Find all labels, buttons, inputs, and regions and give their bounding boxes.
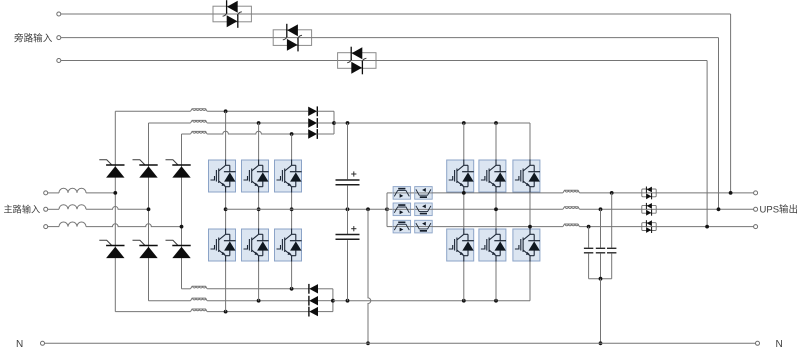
svg-text:N: N <box>776 339 783 350</box>
wire output phase B to terminal <box>656 208 753 210</box>
bidirectional switch module SB1a <box>393 187 411 200</box>
thyristor Q6 (leg3 bottom) <box>166 240 191 258</box>
wire PFC column 2 upper <box>258 123 260 160</box>
inductor Lb4 <box>191 286 208 289</box>
capacitor C4 (filter phase B) <box>596 248 605 253</box>
wire balancer row 2 stub <box>387 208 393 210</box>
wire balancer input bus vertical <box>386 193 388 227</box>
wire inverter column 3 lower <box>529 262 531 301</box>
node +bus inverter col2 junction <box>494 121 498 125</box>
wire boost top 2 diode to bus <box>318 122 334 124</box>
diode D3 (boost top 3) <box>308 129 317 139</box>
wire boost top line 3 continue <box>207 131 308 134</box>
wire output phase A to switch <box>580 192 642 194</box>
node midpoint-balancer junction <box>385 207 389 211</box>
node -bus cap junction <box>346 299 350 303</box>
node output phase B terminal <box>754 207 758 211</box>
IGBT module U2 (PFC top row) <box>242 160 269 193</box>
node bottom3-PFC col1 junction <box>224 310 228 314</box>
IGBT module U9 (inverter top row) <box>513 160 540 193</box>
svg-text:旁路输入: 旁路输入 <box>14 33 53 45</box>
wire PFC column 3 lower <box>291 262 293 289</box>
wire output phase C to switch <box>580 226 642 228</box>
node output phase A terminal <box>754 191 758 195</box>
wire bypass B right <box>312 37 719 39</box>
wire DC midpoint bus <box>226 208 387 210</box>
wire bypass A left <box>61 13 213 15</box>
wire mains C lead <box>48 226 59 228</box>
node -bus inverter col1 junction <box>462 299 466 303</box>
wire neutral drop (midpoint to N, hop over -bus) <box>368 209 371 343</box>
wire PFC column 2 lower <box>258 262 260 301</box>
wire boost top line 1 to diode <box>207 110 308 112</box>
wire boost top line 3 (hops over PFC cols 1,2) <box>182 133 191 135</box>
node midpoint-cap junction <box>346 207 350 211</box>
wire filter cap B lower <box>600 253 602 279</box>
inductor Lo1 <box>563 190 580 193</box>
node phase B filter tap <box>599 207 603 211</box>
bidirectional switch module SB3a <box>393 220 411 233</box>
node bottom1-PFC col3 junction <box>290 287 294 291</box>
wire PFC column 3 middle <box>291 193 293 229</box>
wire boost bottom line 1 (from leg3) <box>182 288 191 290</box>
wire rectifier leg 2 vertical <box>148 123 150 301</box>
IGBT module U5 (PFC bottom row) <box>242 229 269 262</box>
IGBT module U1 (PFC top row) <box>209 160 236 193</box>
inductor Lo3 <box>563 224 580 227</box>
node PFC column 2 midpoint <box>257 207 261 211</box>
wire mains A lead <box>48 192 59 194</box>
wire bottom diode merge bus vertical <box>332 289 334 312</box>
wire inverter column 2 middle <box>495 193 497 229</box>
wire inverter column 1 upper <box>463 123 465 160</box>
capacitor C3 (filter phase A) <box>607 248 616 253</box>
wire mains B lead <box>48 208 59 210</box>
wire output phase A <box>432 192 563 194</box>
wire boost top line 2 <box>149 122 191 124</box>
wire balancer row 2 mid link <box>411 208 415 210</box>
wire inverter column 2 upper <box>495 123 497 160</box>
wire bypass B left <box>61 37 273 39</box>
wire balancer row 1 mid link <box>411 192 415 194</box>
node merge-bus positive junction <box>332 121 336 125</box>
wire boost bottom 2 diode to bus <box>318 300 333 302</box>
node mains phase B terminal <box>44 207 48 211</box>
thyristor pair SSW1 (static bypass phase A) <box>213 0 251 28</box>
IGBT module U6 (PFC bottom row) <box>275 229 302 262</box>
node bypass phase C terminal <box>57 59 61 63</box>
wire bypass A drop to output <box>730 14 732 193</box>
node bypass B output junction <box>717 207 721 211</box>
wire filter cap B drop <box>600 209 602 247</box>
node bypass phase B terminal <box>57 36 61 40</box>
node N left terminal <box>41 341 45 345</box>
wire boost bottom line 2 to diode <box>207 300 309 302</box>
thyristor pair SSW3 (static bypass phase C) <box>338 47 376 75</box>
wire boost top line 1 <box>115 110 190 112</box>
inductor Lin1 <box>59 188 86 193</box>
inductor Lb2 <box>191 120 208 123</box>
wire boost bottom line 3 (from leg1) <box>115 311 190 313</box>
node leg3-phaseC junction <box>180 225 184 229</box>
inductor Lb3 <box>191 131 208 134</box>
bidirectional switch module SB2b <box>415 203 433 216</box>
wire boost bottom line 1 to diode <box>207 288 309 290</box>
wire DC-link cap column lower <box>347 240 349 301</box>
wire balancer row 1 stub <box>387 192 393 194</box>
diode D5 (boost bottom 2) <box>309 296 318 306</box>
wire boost bottom line 3 to diode <box>207 311 309 313</box>
node mains phase A terminal <box>44 191 48 195</box>
IGBT module U4 (PFC bottom row) <box>209 229 236 262</box>
wire bypass C right <box>376 60 707 62</box>
wire boost bottom 3 diode to bus <box>318 311 333 313</box>
wire mains B to rectifier (hop over leg1) <box>86 207 149 210</box>
node PFC column 3 midpoint <box>290 207 294 211</box>
node filter-N junction <box>599 341 603 345</box>
wire negative DC bus <box>333 300 530 302</box>
wire PFC column 2 middle <box>258 193 260 229</box>
wire bypass A right <box>251 13 730 15</box>
bidirectional switch module SB1b <box>415 187 433 200</box>
wire PFC column 3 upper <box>291 134 293 160</box>
wire rectifier leg 3 vertical <box>181 134 183 289</box>
wire inverter column 3 upper <box>529 123 531 160</box>
wire PFC column 1 middle <box>225 193 227 229</box>
node mains phase C terminal <box>44 225 48 229</box>
node phase C filter tap <box>587 225 591 229</box>
node inverter col1 phase A junction <box>462 191 466 195</box>
node neutral-N junction <box>366 341 370 345</box>
diode D2 (boost top 2) <box>308 118 317 128</box>
node +bus cap junction <box>346 121 350 125</box>
node filter common junction <box>599 277 603 281</box>
wire boost top 3 diode to bus <box>318 133 334 135</box>
node boost1-PFC col1 junction <box>224 109 228 113</box>
wire bypass B drop to output <box>718 38 720 210</box>
wire mains A to rectifier <box>86 192 115 194</box>
wire top diode merge bus vertical <box>333 111 335 134</box>
wire filter cap A lower <box>611 253 613 279</box>
thyristor Q5 (leg2 bottom) <box>133 240 158 258</box>
inductor Lb6 <box>191 309 208 312</box>
svg-text:主路输入: 主路输入 <box>4 204 41 215</box>
wire mains C to rectifier (hops over legs 1,2) <box>86 224 182 227</box>
wire balancer row 3 mid link <box>411 226 415 228</box>
wire boost bottom 1 diode to bus <box>318 288 333 290</box>
wire neutral rail N <box>45 342 756 344</box>
node boost3-PFC col3 junction <box>290 132 294 136</box>
bidirectional switch module SB3b <box>415 220 433 233</box>
node inverter col2 phase B junction <box>494 207 498 211</box>
inductor Lo2 <box>563 207 580 210</box>
diode D4 (boost bottom 1) <box>309 284 318 294</box>
wire inverter column 2 lower <box>495 262 497 301</box>
wire output phase A to terminal <box>656 192 753 194</box>
node output phase C terminal <box>754 225 758 229</box>
IGBT module U11 (inverter bottom row) <box>479 229 506 262</box>
node PFC column 1 midpoint <box>224 207 228 211</box>
thyristor Q1 (leg1 top) <box>99 160 124 178</box>
IGBT module U3 (PFC top row) <box>275 160 302 193</box>
wire DC-link cap column middle <box>347 186 349 234</box>
IGBT module U8 (inverter top row) <box>479 160 506 193</box>
bidirectional switch module SB2a <box>393 203 411 216</box>
node merge-bus negative junction <box>331 299 335 303</box>
capacitor C5 (filter phase C) <box>584 248 593 253</box>
wire rectifier leg 1 vertical <box>114 111 116 311</box>
wire output phase B <box>432 208 563 210</box>
diode D1 (boost top 1) <box>308 106 317 116</box>
node leg1-phaseA junction <box>113 191 117 195</box>
node midpoint-neutral junction <box>366 207 370 211</box>
wire bypass C left <box>61 60 338 62</box>
node N right terminal <box>756 341 760 345</box>
capacitor C1 (+ DC link) <box>336 180 360 185</box>
thyristor pair SSW2 (static bypass phase B) <box>273 24 311 52</box>
diode D6 (boost bottom 3) <box>309 307 318 317</box>
thyristor Q4 (leg1 bottom) <box>99 240 124 258</box>
thyristor Q2 (leg2 top) <box>133 160 158 178</box>
wire output phase C to terminal <box>656 226 753 228</box>
node phase A filter tap <box>610 191 614 195</box>
node bypass phase A terminal <box>57 12 61 16</box>
wire PFC column 1 lower <box>225 262 227 312</box>
node bypass C output junction <box>705 225 709 229</box>
wire boost top 1 diode to bus <box>318 110 334 112</box>
wire bypass C drop to output <box>706 61 708 227</box>
IGBT module U10 (inverter bottom row) <box>447 229 474 262</box>
inductor Lin3 <box>59 222 86 227</box>
thyristor pair SW1 (output phase A) <box>642 187 656 200</box>
svg-text:UPS输出: UPS输出 <box>760 204 799 216</box>
IGBT module U12 (inverter bottom row) <box>513 229 540 262</box>
thyristor pair SW3 (output phase C) <box>642 220 656 233</box>
wire inverter column 1 middle <box>463 193 465 229</box>
inductor Lb1 <box>191 109 208 112</box>
node +bus inverter col1 junction <box>462 121 466 125</box>
wire filter common to N <box>600 279 602 344</box>
thyristor Q3 (leg3 top) <box>166 160 191 178</box>
wire filter cap C lower <box>588 253 590 279</box>
wire filter cap C drop <box>588 227 590 248</box>
node leg2-phaseB junction <box>147 207 151 211</box>
wire boost bottom line 2 (from leg2) <box>149 300 191 302</box>
thyristor pair SW2 (output phase B) <box>642 203 656 216</box>
inductor Lin2 <box>59 205 86 210</box>
node -bus inverter col2 junction <box>494 299 498 303</box>
wire filter cap common bar <box>589 278 612 280</box>
wire balancer row 3 stub <box>387 226 393 228</box>
node bypass A output junction <box>729 191 733 195</box>
svg-text:N: N <box>16 339 23 350</box>
capacitor C2 (- DC link) <box>336 235 360 240</box>
wire inverter column 3 middle <box>529 193 531 229</box>
node boost2-PFC col2 junction <box>257 121 261 125</box>
wire PFC column 1 upper <box>225 111 227 159</box>
IGBT module U7 (inverter top row) <box>447 160 474 193</box>
wire inverter column 1 lower <box>463 262 465 301</box>
wire output phase C <box>432 226 563 228</box>
wire output phase B to switch <box>580 208 642 210</box>
wire boost top line 2 to diode <box>207 122 308 124</box>
wire filter cap A drop <box>611 193 613 248</box>
wire DC-link cap column upper <box>347 123 349 179</box>
inductor Lb5 <box>191 298 208 301</box>
node bottom2-PFC col2 junction <box>257 299 261 303</box>
wire positive DC bus <box>334 122 530 124</box>
node inverter col3 phase C junction <box>528 225 532 229</box>
